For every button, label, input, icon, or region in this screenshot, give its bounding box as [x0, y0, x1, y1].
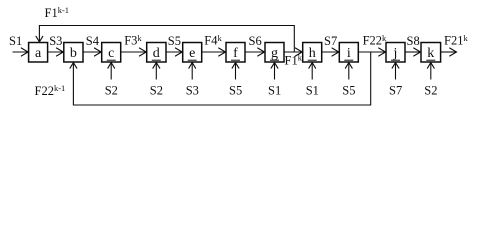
svg-text:F4k: F4k — [204, 33, 222, 48]
box h — [303, 43, 322, 63]
svg-text:c: c — [108, 46, 114, 61]
box g — [265, 43, 284, 63]
wire S1 input into box h from below — [309, 63, 316, 80]
wire F22 feedback: tap on i-j wire down at x370.7, left along y105, up into box b bottom — [70, 52, 371, 105]
svg-text:a: a — [35, 46, 42, 61]
label S5 (net between d and e) — [168, 34, 181, 48]
label F3k (net between c and d) — [124, 33, 142, 48]
box d — [147, 43, 166, 63]
svg-text:S4: S4 — [86, 34, 100, 48]
label F22k (net between i and j) — [363, 33, 387, 48]
wire f to g — [245, 48, 265, 56]
label S7 (net between h and i) — [324, 34, 337, 48]
svg-text:S8: S8 — [407, 34, 420, 48]
svg-text:i: i — [347, 46, 351, 61]
box k — [421, 43, 441, 63]
svg-text:S5: S5 — [168, 34, 181, 48]
wire g to h — [284, 48, 303, 56]
wire S5 input into box f from below — [232, 63, 239, 80]
label S4 (net between b and c) — [86, 34, 100, 48]
box f — [226, 43, 245, 63]
label F22k-1 (bottom feedback net) — [35, 83, 66, 98]
label S1 (under box g) — [268, 83, 281, 97]
svg-text:S5: S5 — [229, 83, 242, 97]
svg-text:S1: S1 — [9, 34, 22, 48]
wire S1 input into box a — [13, 48, 29, 56]
label S6 (net between f and g) — [249, 34, 262, 48]
wire F21 output from box k — [441, 48, 457, 56]
svg-text:d: d — [153, 46, 160, 61]
svg-text:S7: S7 — [324, 34, 337, 48]
svg-text:F1k: F1k — [285, 53, 303, 68]
label S3 (under box e) — [186, 83, 199, 97]
box a — [29, 43, 48, 63]
svg-text:F21k: F21k — [444, 33, 468, 48]
wire F1 feedback: tap on g-h wire up at x294, left along y25.5, down into box a top — [36, 26, 294, 53]
svg-text:j: j — [393, 46, 398, 61]
wire h to i — [322, 48, 340, 56]
wire S2 input into box d from below — [153, 63, 160, 80]
label F1k (net between g and h, below wire) — [285, 53, 303, 68]
box b — [64, 43, 83, 63]
svg-text:S5: S5 — [342, 83, 355, 97]
label S5 (under box i) — [342, 83, 355, 97]
wire S3 input into box e from below — [189, 63, 196, 80]
svg-text:f: f — [233, 46, 238, 61]
label F1k-1 (top feedback net) — [45, 5, 70, 20]
wire S2 input into box k from below — [427, 63, 434, 80]
wire S7 input into box j from below — [392, 63, 399, 80]
svg-text:h: h — [309, 46, 316, 61]
wire b to c — [83, 48, 102, 56]
svg-text:S2: S2 — [150, 83, 163, 97]
label S7 (under box j) — [389, 83, 402, 97]
box j — [386, 43, 405, 63]
wire S2 input into box c from below — [108, 63, 115, 80]
label F21k (output net) — [444, 33, 468, 48]
label S2 (under box c) — [105, 83, 118, 97]
svg-text:S1: S1 — [306, 83, 319, 97]
wire S5 input into box i from below — [345, 63, 352, 80]
svg-text:F22k: F22k — [363, 33, 387, 48]
svg-text:S6: S6 — [249, 34, 262, 48]
svg-text:F22k-1: F22k-1 — [35, 83, 66, 98]
svg-text:S7: S7 — [389, 83, 402, 97]
label S3 (net between a and b) — [49, 34, 62, 48]
svg-text:b: b — [70, 46, 77, 61]
label S2 (under box k) — [424, 83, 437, 97]
box e — [183, 43, 202, 63]
label F4k (net between e and f) — [204, 33, 222, 48]
wire c to d — [121, 48, 147, 56]
wire j to k — [405, 48, 421, 56]
svg-text:S1: S1 — [268, 83, 281, 97]
wire S1 input into box g from below — [271, 63, 278, 80]
wire i to j — [358, 48, 386, 56]
wire a to b — [48, 48, 64, 56]
wire e to f — [202, 48, 226, 56]
svg-text:g: g — [271, 46, 278, 61]
svg-text:S3: S3 — [49, 34, 62, 48]
label S1 (under box h) — [306, 83, 319, 97]
svg-text:S3: S3 — [186, 83, 199, 97]
svg-text:F1k-1: F1k-1 — [45, 5, 70, 20]
svg-text:e: e — [189, 46, 195, 61]
label S8 (net between j and k) — [407, 34, 420, 48]
svg-text:S2: S2 — [424, 83, 437, 97]
wire d to e — [166, 48, 183, 56]
svg-text:S2: S2 — [105, 83, 118, 97]
label S5 (under box f) — [229, 83, 242, 97]
svg-text:F3k: F3k — [124, 33, 142, 48]
box i — [339, 43, 358, 63]
svg-text:k: k — [427, 46, 434, 61]
box c — [102, 43, 121, 63]
label S1 (input net) — [9, 34, 22, 48]
label S2 (under box d) — [150, 83, 163, 97]
